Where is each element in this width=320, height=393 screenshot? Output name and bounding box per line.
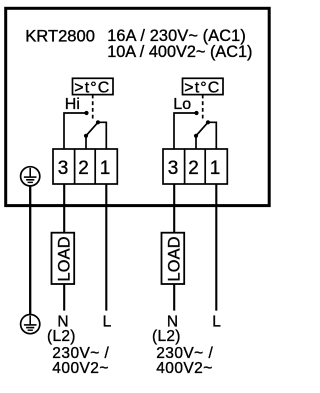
svg-text:400V2~: 400V2~: [52, 360, 109, 377]
terminal block left: [53, 149, 117, 184]
contact dot Lo: [194, 111, 198, 115]
wire terminal 3 right to LOAD: [173, 184, 175, 233]
svg-text:L: L: [103, 313, 112, 330]
svg-text:KRT2800: KRT2800: [25, 27, 95, 46]
svg-text:3: 3: [58, 158, 69, 179]
LOAD box left: [52, 233, 75, 284]
LOAD box right: [162, 233, 185, 284]
wire terminal 3 left to LOAD: [63, 184, 65, 233]
earth symbol upper: [21, 167, 40, 186]
svg-text:LOAD: LOAD: [55, 237, 73, 282]
pivot dot left: [84, 134, 88, 138]
enclosure box KRT2800: [6, 8, 270, 205]
svg-text:3: 3: [168, 158, 179, 179]
switch lever left: [86, 122, 98, 136]
svg-text:1: 1: [210, 158, 221, 179]
wire lever to terminal 1 left: [98, 122, 106, 149]
wire LOAD left to N: [63, 284, 65, 311]
svg-text:400V2~: 400V2~: [156, 360, 213, 377]
svg-text:Hi: Hi: [65, 96, 80, 113]
svg-text:Lo: Lo: [173, 96, 191, 113]
earth symbol lower: [21, 315, 40, 334]
switch lever right: [196, 122, 208, 136]
svg-text:>t°C: >t°C: [74, 80, 109, 97]
wire terminal 1 left to L: [105, 184, 107, 311]
svg-text:2: 2: [78, 158, 89, 179]
svg-text:1: 1: [100, 158, 111, 179]
thermostat sensor box right >t°C: [183, 78, 224, 96]
svg-text:(L2): (L2): [47, 328, 76, 345]
svg-text:LOAD: LOAD: [165, 237, 183, 282]
svg-text:2: 2: [188, 158, 199, 179]
contact dot Hi: [84, 111, 88, 115]
svg-text:10A / 400V2~ (AC1): 10A / 400V2~ (AC1): [107, 43, 252, 61]
lever tip dot left: [96, 120, 100, 124]
wire Lo contact to terminal 3: [174, 113, 197, 149]
lever tip dot right: [206, 120, 210, 124]
wire LOAD right to N: [173, 284, 175, 311]
wire lever to terminal 1 right: [208, 122, 216, 149]
wire pivot to terminal 2 left: [85, 136, 87, 149]
terminal block right: [163, 149, 227, 184]
dashed actuator link right: [202, 95, 204, 120]
wire pivot to terminal 2 right: [195, 136, 197, 149]
dashed actuator link left: [92, 95, 94, 120]
svg-text:>t°C: >t°C: [184, 80, 219, 97]
thermostat sensor box left >t°C: [73, 78, 114, 96]
svg-text:(L2): (L2): [152, 328, 181, 345]
wire terminal 1 right to L: [215, 184, 217, 311]
pivot dot right: [194, 134, 198, 138]
svg-text:L: L: [212, 313, 221, 330]
wire Hi contact to terminal 3: [64, 113, 87, 149]
earth wire: [29, 186, 31, 315]
